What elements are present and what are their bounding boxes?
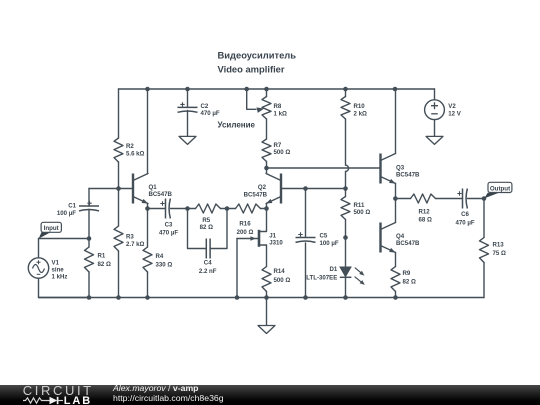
wiper arrow into R8 xyxy=(257,107,265,113)
resistor R16 xyxy=(227,208,236,210)
resistor R11 xyxy=(345,189,347,197)
svg-text:Усиление: Усиление xyxy=(218,120,256,129)
svg-text:68 Ω: 68 Ω xyxy=(419,217,432,224)
svg-text:2.7 kΩ: 2.7 kΩ xyxy=(126,241,145,248)
wire: R7 to node C xyxy=(266,162,268,169)
svg-text:Input: Input xyxy=(44,225,59,232)
capacitor C6 xyxy=(462,189,464,209)
transistor Q4 xyxy=(379,223,381,253)
wire: ground stub xyxy=(266,298,268,326)
wire: Q4 emitter to R9 xyxy=(395,253,397,267)
svg-text:1 kHz: 1 kHz xyxy=(52,273,68,280)
CircuitLab logo text LAB xyxy=(64,395,92,405)
JFET J1 xyxy=(258,230,261,247)
voltage source V1 sine xyxy=(28,258,48,278)
svg-text:500 Ω: 500 Ω xyxy=(274,149,291,156)
transistor Q2 (mirrored) xyxy=(280,174,282,204)
svg-text:Video amplifier: Video amplifier xyxy=(218,63,285,74)
svg-text:200 Ω: 200 Ω xyxy=(237,229,254,236)
resistor R9 xyxy=(391,267,400,292)
wire: C4 parallel loop right xyxy=(210,209,227,249)
wire: J1 gate xyxy=(237,238,259,240)
junction: ground rail / R3 xyxy=(116,295,121,300)
wire: Q2 emitter to node F xyxy=(266,204,268,209)
resistor R13 xyxy=(483,199,485,238)
wire: C4 parallel loop left xyxy=(188,209,207,249)
wire: C1 to input node xyxy=(88,210,90,239)
svg-text:C6: C6 xyxy=(461,211,469,218)
junction: ground rail / R9 xyxy=(393,295,398,300)
junction: top rail / R10 xyxy=(343,87,348,92)
wire: R8 wiper from top rail xyxy=(247,89,256,109)
junction: ground rail / R14 and ground stub xyxy=(264,295,269,300)
junction: node B (Q1 emitter / C3 / R4) xyxy=(145,206,150,211)
wire: top rail corner down to R2 xyxy=(118,89,120,138)
footer credit text xyxy=(113,384,224,403)
wire: Q3 emitter to node OUT1 xyxy=(395,184,397,199)
svg-text:BC547B: BC547B xyxy=(396,240,420,247)
svg-text:Q3: Q3 xyxy=(396,164,405,171)
junction: output node / R13 xyxy=(482,196,487,201)
wire: R9 to ground rail xyxy=(395,292,397,298)
transistor Q1 xyxy=(132,174,134,204)
svg-text:BC547B: BC547B xyxy=(396,172,420,179)
svg-text:BC547B: BC547B xyxy=(244,191,268,198)
wire: node C to Q3 base xyxy=(267,167,381,169)
wire: R8 to R7 xyxy=(266,119,268,139)
capacitor C4 xyxy=(205,239,207,259)
svg-text:LTL-307EE: LTL-307EE xyxy=(306,275,337,282)
svg-text:R16: R16 xyxy=(239,221,251,228)
svg-text:330 Ω: 330 Ω xyxy=(156,261,173,268)
svg-text:100 µF: 100 µF xyxy=(57,210,76,217)
wire: node E to D1 xyxy=(345,238,347,267)
wire: Q4 collector to node OUT1 xyxy=(395,199,397,223)
resistor R12 xyxy=(395,198,410,200)
svg-text:82 Ω: 82 Ω xyxy=(98,261,111,268)
junction: top rail / Q3 collector xyxy=(393,87,398,92)
svg-text:1 kΩ: 1 kΩ xyxy=(274,110,287,117)
junction: input node / R1 xyxy=(87,236,92,241)
junction: ground rail / D1 xyxy=(343,295,348,300)
svg-text:Q1: Q1 xyxy=(149,184,158,191)
wire: Q1 emitter to node B xyxy=(147,204,149,209)
svg-text:Output: Output xyxy=(490,185,510,192)
wire: Q3 collector to top rail xyxy=(395,89,397,154)
svg-text:5.6 kΩ: 5.6 kΩ xyxy=(126,151,145,158)
wire: R3 to ground rail xyxy=(118,251,120,298)
wire: top rail to V2 xyxy=(434,89,436,100)
svg-text:R1: R1 xyxy=(98,253,106,260)
wire: R4 to ground rail xyxy=(147,272,149,298)
wire: R2 to base node A xyxy=(118,162,120,189)
svg-text:75 Ω: 75 Ω xyxy=(493,250,506,257)
resistor R3 xyxy=(118,189,120,227)
svg-text:100 µF: 100 µF xyxy=(320,240,339,247)
resistor R14 xyxy=(262,267,271,292)
svg-text:sine: sine xyxy=(52,266,65,273)
svg-text:C5: C5 xyxy=(320,232,328,239)
wire: node A to Q1 base xyxy=(119,188,134,190)
wire: +12V top rail xyxy=(119,88,435,90)
svg-text:2.2 nF: 2.2 nF xyxy=(199,268,217,275)
svg-text:C1: C1 xyxy=(68,202,76,209)
resistor R2 xyxy=(114,138,123,162)
wire: Q2 base to node D xyxy=(281,188,346,190)
junction: top rail / Q1 collector xyxy=(145,87,150,92)
junction: top rail / C2 xyxy=(185,87,190,92)
potentiometer R8 xyxy=(266,89,268,97)
svg-text:J310: J310 xyxy=(269,239,283,246)
junction: ground rail / R4 xyxy=(145,295,150,300)
svg-text:R9: R9 xyxy=(403,270,411,277)
svg-text:470 µF: 470 µF xyxy=(159,230,178,237)
svg-text:V2: V2 xyxy=(448,103,456,110)
svg-text:R14: R14 xyxy=(274,268,286,275)
svg-text:82 Ω: 82 Ω xyxy=(200,224,213,231)
junction: ground rail / R1 xyxy=(87,295,92,300)
svg-text:470 µF: 470 µF xyxy=(201,110,220,117)
junction: node C (R7 / Q2 collector / Q3 base wire) xyxy=(264,166,269,171)
junction: node D (R10 / R11 / Q2 base wire) xyxy=(343,186,348,191)
svg-text:V1: V1 xyxy=(52,259,60,266)
node flag Output xyxy=(484,193,498,199)
wire: R13 to ground rail xyxy=(483,263,485,298)
svg-text:D1: D1 xyxy=(330,266,338,273)
voltage source V2 xyxy=(425,100,445,120)
wire: Q1 collector to top rail xyxy=(147,89,149,174)
LED D1 xyxy=(340,267,351,277)
svg-text:R11: R11 xyxy=(354,202,365,209)
wire: R11 to node E xyxy=(345,220,347,238)
resistor R10 xyxy=(345,89,347,97)
svg-text:J1: J1 xyxy=(269,232,276,239)
junction: node A (R2/R3/C1/Q1 base) xyxy=(116,186,121,191)
wire: J1 source to R14 xyxy=(260,245,267,267)
svg-text:Видеоусилитель: Видеоусилитель xyxy=(218,50,297,61)
svg-text:C3: C3 xyxy=(165,221,173,228)
svg-text:Q4: Q4 xyxy=(396,233,405,240)
svg-text:R13: R13 xyxy=(493,242,505,249)
wire: Q2 base wire to C5 xyxy=(305,189,307,238)
svg-text:470 µF: 470 µF xyxy=(455,219,474,226)
svg-text:R2: R2 xyxy=(126,143,134,150)
junction: node F (Q2 emitter / R16 / J1 drain) xyxy=(264,206,269,211)
junction: ground rail / J1 gate xyxy=(235,295,240,300)
resistor R7 xyxy=(262,139,271,162)
wire: C5 to ground rail xyxy=(305,243,307,298)
junction: node G (C3 / R5 / C4) xyxy=(185,206,190,211)
svg-text:C4: C4 xyxy=(204,260,212,267)
capacitor C1 xyxy=(79,205,99,207)
wire: C3 to node G xyxy=(171,208,188,210)
footer bar xyxy=(0,385,540,405)
junction: Q2 base wire / C5 xyxy=(303,186,308,191)
junction: top rail / R8 wiper xyxy=(244,87,249,92)
wire: top rail to C2 xyxy=(187,89,189,107)
resistor R1 xyxy=(88,239,90,248)
junction: node OUT1 (Q3 emitter / Q4 collector / R12) xyxy=(393,196,398,201)
wire: C6 to output node xyxy=(468,198,485,200)
wire: V1 to ground rail xyxy=(39,278,90,297)
wire: node B to C3 xyxy=(148,208,166,210)
wire: R14 to ground rail xyxy=(266,292,268,298)
junction: top rail / R8 xyxy=(264,87,269,92)
capacitor C3 xyxy=(165,199,167,219)
wire: Q2 collector to node C xyxy=(266,168,268,174)
resistor R4 xyxy=(147,209,149,248)
wire: node F to J1 drain xyxy=(260,209,267,232)
CircuitLab logo text CIRCUIT xyxy=(23,383,94,398)
svg-text:R3: R3 xyxy=(126,233,134,240)
svg-text:500 Ω: 500 Ω xyxy=(274,277,291,284)
wire: J1 gate to ground rail xyxy=(236,239,238,298)
junction: node E (R11 / D1 / Q4 base) xyxy=(343,235,348,240)
CircuitLab logo resistor-diode glyph xyxy=(22,395,64,405)
svg-text:R4: R4 xyxy=(156,253,164,260)
svg-text:R7: R7 xyxy=(274,142,282,149)
svg-text:82 Ω: 82 Ω xyxy=(403,279,416,286)
wire: input node to V1 xyxy=(39,238,90,240)
junction: ground rail / C5 xyxy=(303,295,308,300)
svg-text:2 kΩ: 2 kΩ xyxy=(354,111,367,118)
wire: V2 to ground xyxy=(434,120,436,137)
ground below V2 xyxy=(426,136,443,144)
wire: V1 to input node xyxy=(38,239,40,258)
ground below C2 xyxy=(179,136,196,144)
svg-text:R8: R8 xyxy=(274,103,282,110)
wire: C2 to ground xyxy=(187,111,189,137)
capacitor C2 xyxy=(178,106,198,108)
node flag Input xyxy=(39,232,51,239)
svg-text:BC547B: BC547B xyxy=(149,191,173,198)
svg-text:R10: R10 xyxy=(354,103,366,110)
ground symbol (main) xyxy=(258,326,275,334)
svg-text:Q2: Q2 xyxy=(258,184,267,191)
wire: D1 to ground rail xyxy=(345,277,347,298)
junction: node H (R5 / R16 / C4) xyxy=(225,206,230,211)
svg-text:12 V: 12 V xyxy=(448,110,461,117)
wire: node A to C1 xyxy=(89,188,119,190)
resistor R5 xyxy=(188,208,196,210)
capacitor C5 xyxy=(296,237,316,239)
wire: R1 to ground rail xyxy=(88,272,90,298)
svg-text:R12: R12 xyxy=(419,209,431,216)
svg-text:500 Ω: 500 Ω xyxy=(354,209,371,216)
transistor Q3 xyxy=(379,154,381,184)
wire: R10 down with hop over Q3 base wire xyxy=(345,119,347,165)
wire: ground rail xyxy=(39,297,485,299)
